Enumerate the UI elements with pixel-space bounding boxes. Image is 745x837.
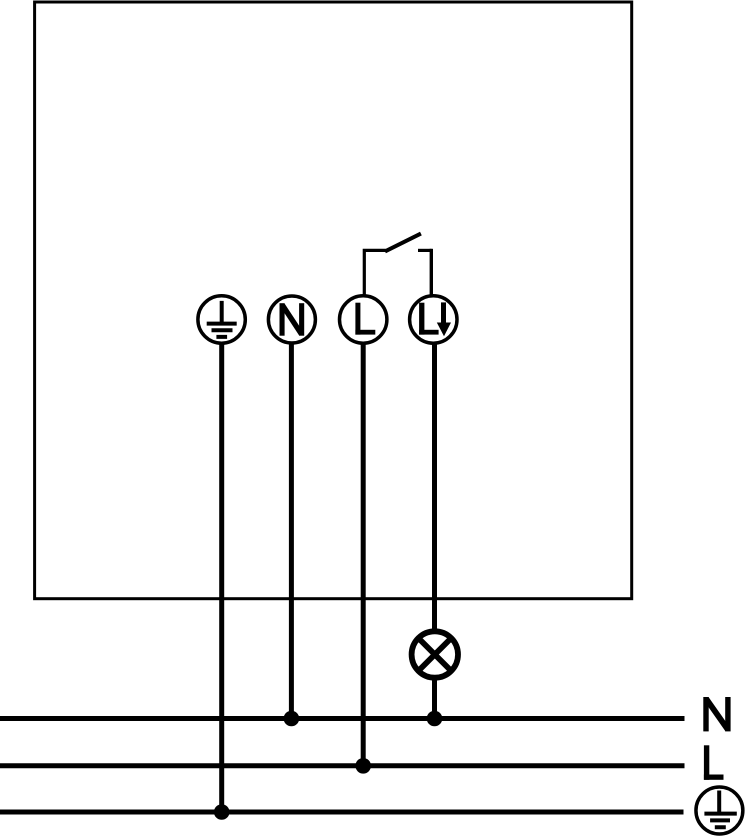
- terminal PE earth symbol: [207, 301, 237, 337]
- switch S blade (open): [385, 234, 421, 252]
- wire from terminal L up to switch left contact: [363, 250, 386, 296]
- terminal L letter: [355, 303, 375, 335]
- wire from switch right contact down to terminal L-load: [430, 249, 433, 296]
- PE bus earth symbol circle: [696, 787, 743, 834]
- label N bus: [703, 697, 730, 731]
- junction dot N-wire / N bus: [284, 711, 300, 727]
- wire PE terminal to PE bus: [219, 343, 224, 812]
- terminal L-load down arrow: [437, 302, 451, 336]
- PE bus earth symbol marks: [704, 791, 736, 828]
- N bus line: [0, 716, 685, 721]
- wire lamp to N bus: [432, 678, 437, 719]
- label L bus: [704, 745, 724, 780]
- terminal L circle: [340, 296, 387, 343]
- terminal N letter: [280, 303, 305, 336]
- terminal N circle: [268, 296, 315, 343]
- junction dot L-wire / L bus: [355, 758, 371, 774]
- wire L-load terminal to lamp: [432, 343, 437, 631]
- PE bus line: [0, 810, 684, 815]
- wire N terminal to N bus: [289, 343, 294, 719]
- lamp E1 circle: [412, 631, 458, 677]
- wire L terminal to L bus: [361, 343, 366, 766]
- L bus line: [0, 763, 685, 768]
- terminal PE circle: [198, 296, 245, 343]
- junction dot lamp-wire / N bus: [427, 711, 443, 727]
- terminal L-load letter L: [419, 303, 439, 335]
- lamp E1 cross: [419, 639, 451, 671]
- terminal L-load circle: [410, 296, 457, 343]
- junction dot PE-wire / PE bus: [214, 804, 230, 820]
- switch right contact: [418, 249, 432, 252]
- device box outline: [35, 2, 632, 599]
